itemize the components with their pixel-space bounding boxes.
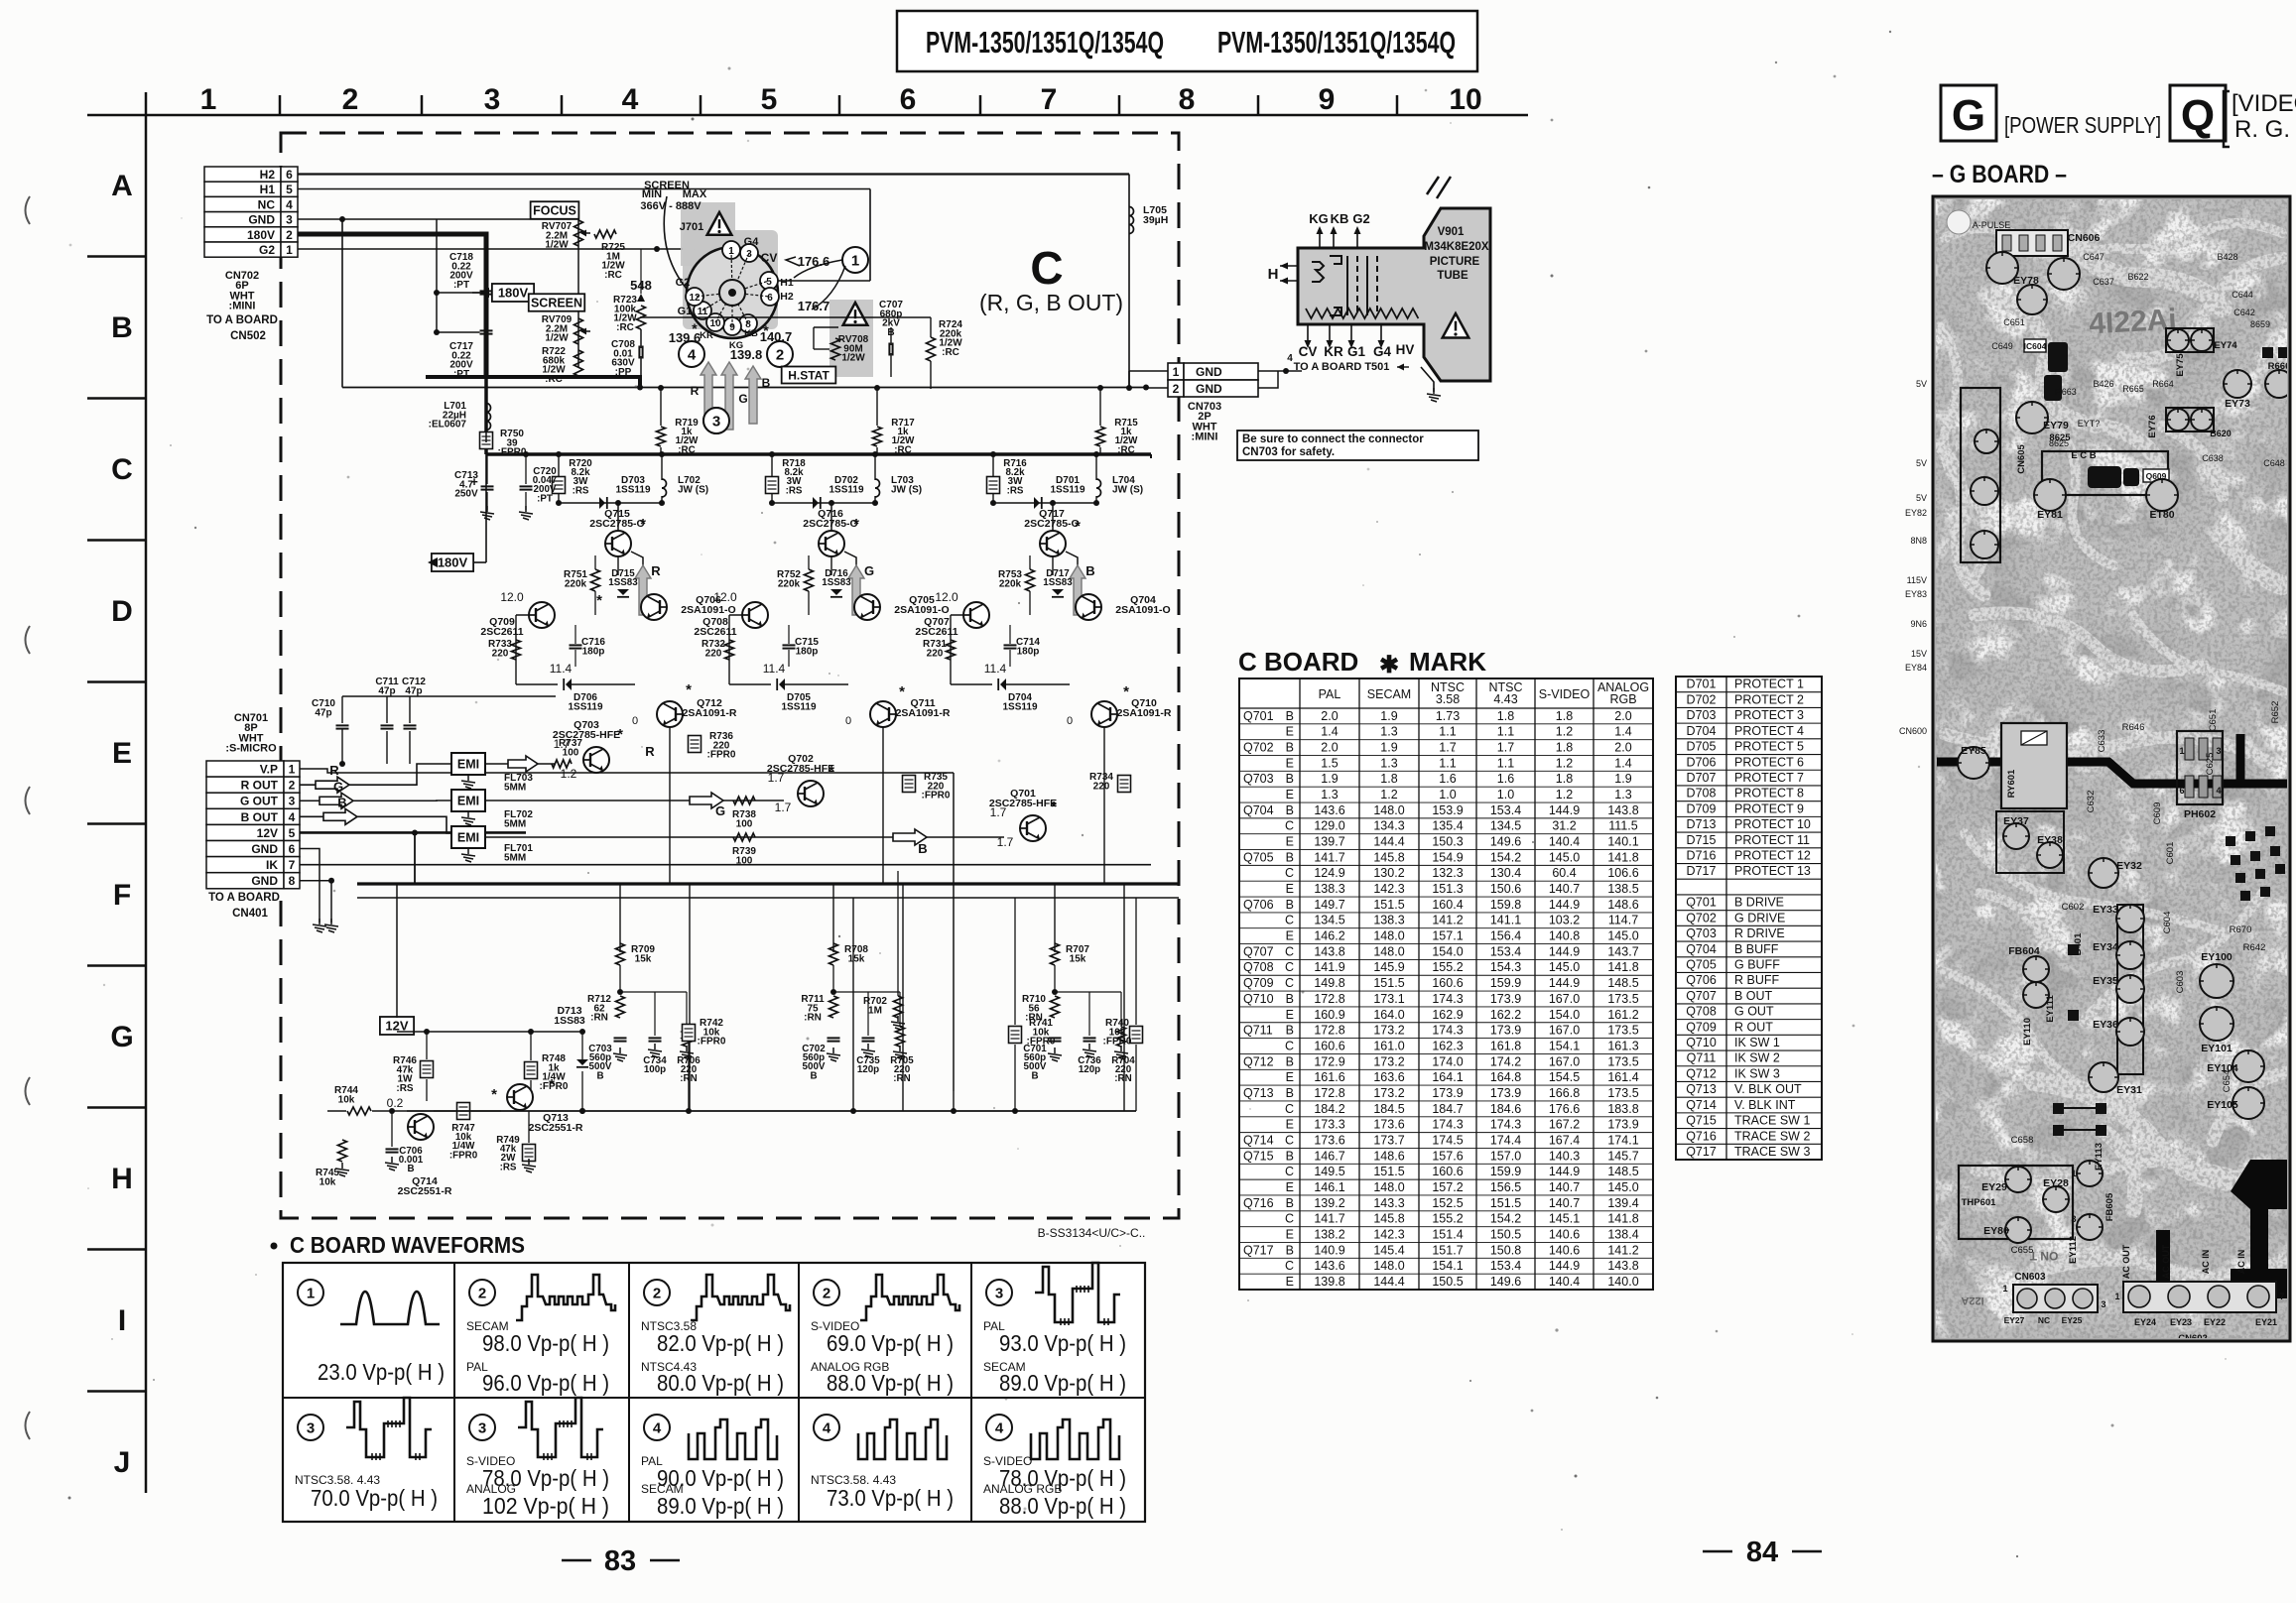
svg-text:IK SW 2: IK SW 2 — [1734, 1051, 1780, 1065]
svg-text:CN600: CN600 — [1899, 726, 1927, 736]
svg-text:10k: 10k — [338, 1094, 355, 1105]
svg-text:EY78: EY78 — [2013, 275, 2039, 287]
output arrow G — [848, 565, 864, 615]
svg-text:3.58: 3.58 — [1436, 692, 1460, 706]
connector CN602 — [2123, 1282, 2276, 1312]
svg-text:Q710: Q710 — [1686, 1036, 1717, 1049]
svg-text:149.6: 149.6 — [1490, 835, 1521, 849]
svg-text:148.0: 148.0 — [1373, 929, 1404, 943]
svg-text:E: E — [1286, 1227, 1294, 1241]
svg-text:7: 7 — [1041, 83, 1058, 116]
pot RV708 — [831, 338, 840, 360]
svg-text:173.5: 173.5 — [1607, 1054, 1638, 1068]
svg-text:R666: R666 — [2268, 361, 2291, 372]
svg-text:141.8: 141.8 — [1607, 850, 1638, 864]
svg-text:C651: C651 — [2003, 317, 2025, 327]
svg-text:23.0 Vp-p( H ): 23.0 Vp-p( H ) — [318, 1359, 445, 1385]
svg-text:E: E — [1286, 1070, 1294, 1084]
svg-text:G OUT: G OUT — [240, 795, 279, 808]
svg-text:Q717: Q717 — [1686, 1145, 1717, 1159]
svg-text:G: G — [1952, 91, 1985, 140]
svg-text:88.0 Vp-p( H ): 88.0 Vp-p( H ) — [999, 1493, 1126, 1519]
capacitor C720 — [520, 485, 533, 487]
svg-text:4I22Ai: 4I22Ai — [2089, 304, 2178, 341]
svg-text:EY37: EY37 — [2003, 815, 2029, 827]
svg-text:*: * — [1051, 799, 1057, 815]
svg-text:1/2W: 1/2W — [545, 240, 569, 251]
svg-text:TO A BOARD: TO A BOARD — [206, 314, 278, 326]
svg-text:2SC2785-O: 2SC2785-O — [803, 518, 857, 530]
svg-text:PAL: PAL — [1319, 687, 1341, 701]
svg-text:164.1: 164.1 — [1432, 1070, 1463, 1084]
svg-text:130.4: 130.4 — [1490, 866, 1521, 880]
svg-text:141.1: 141.1 — [1490, 914, 1521, 927]
svg-text:5MM: 5MM — [504, 818, 526, 829]
svg-text:144.9: 144.9 — [1549, 976, 1580, 990]
svg-text:1.8: 1.8 — [1380, 772, 1397, 786]
waveform cell 2 (stair) — [644, 1280, 670, 1305]
svg-text:JW (S): JW (S) — [678, 484, 708, 495]
svg-text:144.4: 144.4 — [1373, 835, 1404, 849]
svg-text:145.7: 145.7 — [1607, 1149, 1638, 1163]
svg-text:TO A BOARD: TO A BOARD — [208, 892, 280, 904]
svg-text::RC: :RC — [1117, 444, 1134, 455]
svg-text:G: G — [738, 392, 747, 406]
svg-text:PICTURE: PICTURE — [1430, 256, 1480, 268]
wire G with arrow — [300, 800, 451, 801]
svg-text::RC: :RC — [616, 322, 634, 333]
svg-text:FOCUS: FOCUS — [533, 204, 576, 218]
R G B arrows mid — [508, 756, 538, 772]
svg-text:144.4: 144.4 — [1373, 1275, 1404, 1289]
svg-text:EY21: EY21 — [2255, 1317, 2277, 1327]
resistor R710|56 RN — [1051, 996, 1060, 1018]
SCREEN boxed label — [529, 294, 585, 311]
svg-text:1.9: 1.9 — [1321, 772, 1338, 786]
svg-text:B: B — [1286, 1243, 1294, 1257]
capacitor C734 and resistor R706 — [649, 1037, 662, 1039]
svg-text:151.5: 151.5 — [1373, 898, 1404, 912]
svg-text:220: 220 — [1093, 781, 1110, 792]
Q609 block — [2042, 451, 2168, 495]
resistor R717 1k — [876, 388, 878, 426]
grid column tick — [1396, 95, 1399, 115]
svg-text:1.2: 1.2 — [561, 767, 577, 781]
svg-text:C649: C649 — [1991, 341, 2013, 351]
svg-text:B: B — [1286, 1086, 1294, 1100]
svg-text:C BOARD: C BOARD — [1238, 647, 1358, 677]
svg-text:C: C — [1285, 976, 1294, 990]
svg-text:1: 1 — [2071, 1169, 2076, 1178]
svg-text:139.2: 139.2 — [1314, 1196, 1344, 1210]
svg-text:C648: C648 — [2263, 458, 2285, 468]
svg-text:Q716: Q716 — [1243, 1196, 1274, 1210]
cathode drive arrow KB — [745, 366, 761, 424]
svg-text:Q714: Q714 — [1686, 1098, 1717, 1112]
svg-text:154.0: 154.0 — [1432, 944, 1463, 958]
svg-text:GND: GND — [1196, 382, 1222, 396]
big black shape bottom right — [2231, 1160, 2290, 1298]
svg-text:161.2: 161.2 — [1607, 1008, 1638, 1022]
svg-text:D707: D707 — [1687, 771, 1717, 785]
inductor L702 — [661, 454, 663, 480]
svg-text:150.5: 150.5 — [1490, 1227, 1521, 1241]
svg-text::PP: :PP — [615, 367, 632, 378]
svg-text:8659: 8659 — [2250, 319, 2270, 329]
PCB copper trace blobs — [1945, 223, 2282, 251]
svg-text:C602: C602 — [2062, 902, 2085, 913]
svg-text:130.2: 130.2 — [1373, 866, 1404, 880]
resistor R708 15k — [829, 943, 838, 965]
svg-text:V. BLK INT: V. BLK INT — [1734, 1098, 1796, 1112]
grid row tick — [87, 1390, 146, 1393]
svg-text:IK SW 1: IK SW 1 — [1734, 1036, 1780, 1049]
wire caps vertical — [436, 219, 438, 332]
svg-text:C BOARD WAVEFORMS: C BOARD WAVEFORMS — [290, 1232, 525, 1258]
svg-text:D703: D703 — [1687, 708, 1717, 722]
svg-text:180V: 180V — [247, 228, 275, 242]
callout arcs — [786, 257, 842, 278]
svg-text:173.2: 173.2 — [1373, 1024, 1404, 1038]
scan margin marks — [26, 196, 31, 224]
svg-text:CV: CV — [761, 251, 778, 265]
svg-text:C: C — [1285, 1133, 1294, 1147]
svg-text:180p: 180p — [1017, 646, 1040, 657]
svg-text:Q716: Q716 — [1686, 1129, 1717, 1143]
svg-text:EY24: EY24 — [2134, 1317, 2156, 1327]
CRT socket circle — [687, 247, 778, 338]
grid row tick — [87, 822, 146, 825]
svg-text:PROTECT 6: PROTECT 6 — [1734, 755, 1804, 769]
svg-text:PROTECT 8: PROTECT 8 — [1734, 787, 1804, 801]
svg-text:167.2: 167.2 — [1549, 1118, 1580, 1132]
svg-text:EY34: EY34 — [2093, 941, 2118, 953]
svg-text:B: B — [1286, 898, 1294, 912]
svg-text:174.3: 174.3 — [1490, 1118, 1521, 1132]
svg-text:B426: B426 — [2093, 379, 2113, 389]
svg-text:1SS119: 1SS119 — [1002, 701, 1037, 712]
svg-text:144.9: 144.9 — [1549, 803, 1580, 817]
svg-text:0: 0 — [845, 715, 851, 727]
svg-text:EY80: EY80 — [1983, 1225, 2009, 1237]
svg-text::RS: :RS — [786, 485, 803, 496]
svg-text::FPR0: :FPR0 — [1103, 1037, 1132, 1048]
svg-text:15V: 15V — [1911, 649, 1927, 659]
wire R with arrow — [300, 764, 451, 785]
svg-text:Q712: Q712 — [1686, 1066, 1717, 1080]
svg-text:Q701: Q701 — [1243, 709, 1274, 723]
svg-text:148.0: 148.0 — [1373, 1180, 1404, 1194]
svg-text:2SC2785-O: 2SC2785-O — [589, 518, 644, 530]
resistor R751 220k — [591, 569, 600, 591]
svg-text:E: E — [112, 737, 132, 770]
svg-text:B: B — [1286, 741, 1294, 755]
svg-text:CN401: CN401 — [232, 908, 268, 920]
capacitor C703 560p — [614, 1037, 627, 1039]
svg-text:JW (S): JW (S) — [1112, 484, 1143, 495]
svg-text:143.6: 143.6 — [1314, 1259, 1344, 1273]
resistor R748 1k — [525, 1062, 538, 1079]
svg-text:TUBE: TUBE — [1437, 270, 1468, 282]
svg-text:155.2: 155.2 — [1432, 960, 1463, 974]
wire GND pin3 — [298, 218, 578, 220]
svg-text:B: B — [887, 327, 894, 338]
svg-text:C638: C638 — [2202, 453, 2224, 463]
svg-text:154.0: 154.0 — [1549, 1008, 1580, 1022]
svg-text:174.2: 174.2 — [1490, 1054, 1521, 1068]
svg-text:G: G — [715, 803, 725, 818]
pads EY100 EY101 EY104 EY105 — [2200, 964, 2233, 998]
svg-text:151.5: 151.5 — [1490, 1196, 1521, 1210]
svg-text::RC: :RC — [678, 444, 695, 455]
svg-text:Q703: Q703 — [1686, 926, 1717, 940]
svg-text:9: 9 — [729, 322, 735, 333]
svg-text:3: 3 — [307, 1420, 315, 1437]
grid row tick — [87, 397, 146, 400]
svg-text:173.9: 173.9 — [1432, 1086, 1463, 1100]
title box PVM-1350/1351Q/1354Q — [897, 11, 1477, 71]
svg-text:TO A BOARD T501: TO A BOARD T501 — [1294, 361, 1390, 373]
svg-text:Q713: Q713 — [1686, 1082, 1717, 1096]
svg-text:2SA1091-R: 2SA1091-R — [1117, 707, 1172, 719]
svg-text:C647: C647 — [2083, 252, 2105, 262]
svg-text:D702: D702 — [1687, 692, 1717, 706]
svg-text:B: B — [1085, 563, 1094, 578]
svg-text:AC IN: AC IN — [2236, 1250, 2246, 1275]
svg-text:R OUT: R OUT — [241, 779, 279, 793]
svg-text:12.0: 12.0 — [935, 590, 958, 604]
wire focus loop — [640, 249, 642, 294]
svg-text:173.5: 173.5 — [1607, 1086, 1638, 1100]
svg-text:RGB: RGB — [1609, 692, 1636, 706]
svg-text:D709: D709 — [1687, 801, 1717, 815]
svg-text:152.5: 152.5 — [1432, 1196, 1463, 1210]
svg-text:159.9: 159.9 — [1490, 976, 1521, 990]
svg-text:138.4: 138.4 — [1607, 1227, 1638, 1241]
svg-text:100: 100 — [736, 855, 753, 866]
svg-text:1: 1 — [307, 1286, 315, 1302]
svg-text:E: E — [1286, 756, 1294, 770]
svg-text:1.6: 1.6 — [1497, 772, 1514, 786]
svg-text:160.6: 160.6 — [1314, 1039, 1344, 1052]
resistor R716 8.2k boxed — [992, 454, 994, 477]
svg-text:7: 7 — [289, 858, 296, 872]
svg-text:EY35: EY35 — [2093, 975, 2118, 987]
svg-text:146.7: 146.7 — [1314, 1149, 1344, 1163]
svg-text:1SS119: 1SS119 — [615, 484, 650, 495]
svg-text:EY81: EY81 — [2037, 509, 2063, 521]
svg-text::PT: :PT — [537, 493, 553, 504]
resistor R735 220 FPR0 — [903, 776, 916, 793]
blanking risers — [852, 444, 854, 1111]
waveform cell 2 (stair) — [469, 1280, 495, 1305]
wire 12V to blanking — [397, 1031, 582, 1033]
svg-text:G: G — [110, 1021, 133, 1053]
svg-text::RN: :RN — [1114, 1073, 1131, 1084]
svg-text:A-PULSE: A-PULSE — [1973, 220, 2011, 230]
svg-text:Q715: Q715 — [1686, 1114, 1717, 1128]
PCB white corner circle — [1947, 210, 1971, 234]
svg-text:250V: 250V — [454, 489, 478, 500]
svg-text:12: 12 — [689, 293, 701, 304]
CN703 right wires — [1258, 370, 1286, 372]
svg-text:157.0: 157.0 — [1490, 1149, 1521, 1163]
wires after EMI — [485, 763, 556, 765]
svg-text:139.7: 139.7 — [1314, 835, 1344, 849]
svg-text:KB: KB — [744, 328, 758, 339]
svg-text:39µH: 39µH — [1143, 214, 1168, 226]
diode D716 1SS83 — [830, 589, 842, 595]
svg-text:140.0: 140.0 — [1607, 1275, 1638, 1289]
CRT socket pin 1 — [722, 241, 740, 259]
resistor R750 39 FPR0 — [480, 432, 493, 449]
svg-text:Q714: Q714 — [1243, 1133, 1274, 1147]
svg-text:10k: 10k — [319, 1176, 336, 1187]
svg-text:60.4: 60.4 — [1552, 866, 1576, 880]
svg-text::RS: :RS — [573, 485, 589, 496]
svg-text:B: B — [1031, 1070, 1038, 1081]
svg-text:1SS119: 1SS119 — [781, 701, 816, 712]
svg-text:134.5: 134.5 — [1490, 819, 1521, 833]
svg-text:D: D — [111, 595, 133, 628]
svg-text:100: 100 — [563, 747, 579, 758]
svg-text:RY601: RY601 — [2006, 769, 2017, 798]
wire gnd bus to CN703 pin2 — [342, 387, 1146, 389]
capacitor C714 180p — [1004, 644, 1017, 646]
CRT socket pin 6 — [761, 288, 779, 306]
svg-text:E: E — [1286, 1275, 1294, 1289]
svg-text:141.8: 141.8 — [1607, 1212, 1638, 1226]
HV ground — [1421, 367, 1434, 392]
svg-text:D716: D716 — [1687, 849, 1717, 863]
svg-text:173.9: 173.9 — [1490, 992, 1521, 1006]
svg-text:3: 3 — [478, 1420, 486, 1437]
svg-text:151.7: 151.7 — [1432, 1243, 1463, 1257]
svg-text:C: C — [1030, 242, 1063, 294]
svg-text:120p: 120p — [1079, 1064, 1100, 1075]
svg-text:1: 1 — [851, 253, 859, 270]
svg-text:2SA1091-O: 2SA1091-O — [681, 604, 735, 616]
svg-text:69.0 Vp-p( H ): 69.0 Vp-p( H ) — [827, 1330, 954, 1356]
pads EY76 77 boxed — [2166, 408, 2214, 432]
svg-text:1: 1 — [286, 243, 293, 257]
svg-text:2.0: 2.0 — [1614, 709, 1631, 723]
svg-text:145.1: 145.1 — [1549, 1212, 1580, 1226]
svg-text:1SS83: 1SS83 — [822, 577, 851, 588]
svg-text:183.8: 183.8 — [1607, 1102, 1638, 1116]
svg-text:G: G — [864, 563, 874, 578]
svg-text:D708: D708 — [1687, 787, 1717, 801]
svg-text:2: 2 — [1173, 382, 1180, 396]
svg-text:148.6: 148.6 — [1607, 898, 1638, 912]
svg-text:172.8: 172.8 — [1314, 992, 1344, 1006]
svg-text:153.9: 153.9 — [1432, 803, 1463, 817]
svg-text:84: 84 — [1746, 1537, 1778, 1568]
svg-text:I22A: I22A — [1961, 1295, 1983, 1306]
svg-text:ET80: ET80 — [2149, 509, 2174, 521]
svg-text:167.0: 167.0 — [1549, 992, 1580, 1006]
svg-text:173.2: 173.2 — [1373, 1054, 1404, 1068]
svg-text:47p: 47p — [315, 707, 331, 718]
svg-text::RS: :RS — [396, 1083, 414, 1094]
svg-text::S-MICRO: :S-MICRO — [225, 743, 277, 755]
svg-text:C642: C642 — [2233, 308, 2255, 317]
svg-text:EY101: EY101 — [2201, 1043, 2232, 1054]
svg-text:160.6: 160.6 — [1432, 1165, 1463, 1178]
svg-text:5: 5 — [289, 826, 296, 840]
svg-text:160.6: 160.6 — [1432, 976, 1463, 990]
grid column tick — [561, 95, 564, 115]
svg-text:150.8: 150.8 — [1490, 1243, 1521, 1257]
svg-text:Q711: Q711 — [1687, 1051, 1717, 1065]
svg-text:E: E — [1286, 1180, 1294, 1194]
svg-text:1.6: 1.6 — [1439, 772, 1456, 786]
CRT socket pin 8 — [739, 314, 757, 332]
svg-text:C: C — [1285, 866, 1294, 880]
svg-text:B: B — [1286, 1196, 1294, 1210]
pads EY37 EY38 — [1996, 811, 2064, 873]
FOCUS boxed label — [531, 201, 579, 219]
pot RV709 — [574, 318, 583, 344]
svg-text:1.7: 1.7 — [768, 771, 785, 785]
svg-text:J701: J701 — [680, 221, 703, 233]
svg-text:C644: C644 — [2232, 290, 2253, 300]
svg-text:C604: C604 — [2162, 912, 2173, 934]
svg-text:12.0: 12.0 — [713, 590, 737, 604]
svg-text:0.2: 0.2 — [387, 1096, 404, 1110]
svg-text:H.STAT: H.STAT — [788, 368, 829, 382]
svg-text:1.7: 1.7 — [1439, 741, 1456, 755]
svg-text:B: B — [918, 841, 927, 856]
svg-text:161.4: 161.4 — [1607, 1070, 1638, 1084]
boxed label 180V rail — [432, 554, 473, 571]
svg-text:8: 8 — [1179, 83, 1196, 116]
svg-text:E: E — [1286, 929, 1294, 943]
svg-text:KR: KR — [700, 330, 713, 341]
H.STAT boxed label — [782, 367, 836, 384]
svg-text:156.4: 156.4 — [1490, 929, 1521, 943]
svg-text:6: 6 — [767, 293, 773, 304]
svg-text:138.2: 138.2 — [1314, 1227, 1344, 1241]
svg-text:140.9: 140.9 — [1314, 1243, 1344, 1257]
svg-text:PH602: PH602 — [2184, 808, 2216, 820]
svg-text:Q703: Q703 — [1243, 772, 1274, 786]
svg-text:1.7: 1.7 — [990, 805, 1007, 819]
svg-text:31.2: 31.2 — [1552, 819, 1576, 833]
svg-text:176.7: 176.7 — [798, 299, 830, 313]
grid column tick — [979, 95, 982, 115]
vertical collector wires stage B — [1052, 556, 1054, 575]
EMI filter FL702 — [451, 790, 485, 811]
diode D704 1SS119 — [1000, 678, 1006, 690]
svg-text:11.4: 11.4 — [984, 662, 1007, 676]
svg-text:1.0: 1.0 — [1439, 788, 1456, 801]
circled 2 — [767, 341, 793, 367]
svg-text:B: B — [810, 1070, 817, 1081]
resistor R707 15k — [1051, 943, 1060, 965]
svg-text:93.0 Vp-p( H ): 93.0 Vp-p( H ) — [999, 1330, 1126, 1356]
svg-text:C: C — [1285, 1102, 1294, 1116]
cathode drive arrow KG — [721, 362, 737, 430]
svg-text:143.8: 143.8 — [1607, 1259, 1638, 1273]
svg-text:140.6: 140.6 — [1549, 1227, 1580, 1241]
svg-text:144.9: 144.9 — [1549, 944, 1580, 958]
svg-text:1/2W: 1/2W — [841, 353, 865, 364]
svg-text:I: I — [118, 1304, 126, 1337]
svg-text:106.6: 106.6 — [1607, 866, 1638, 880]
wire 12V pin5 — [300, 831, 526, 834]
svg-text:3: 3 — [995, 1286, 1003, 1302]
